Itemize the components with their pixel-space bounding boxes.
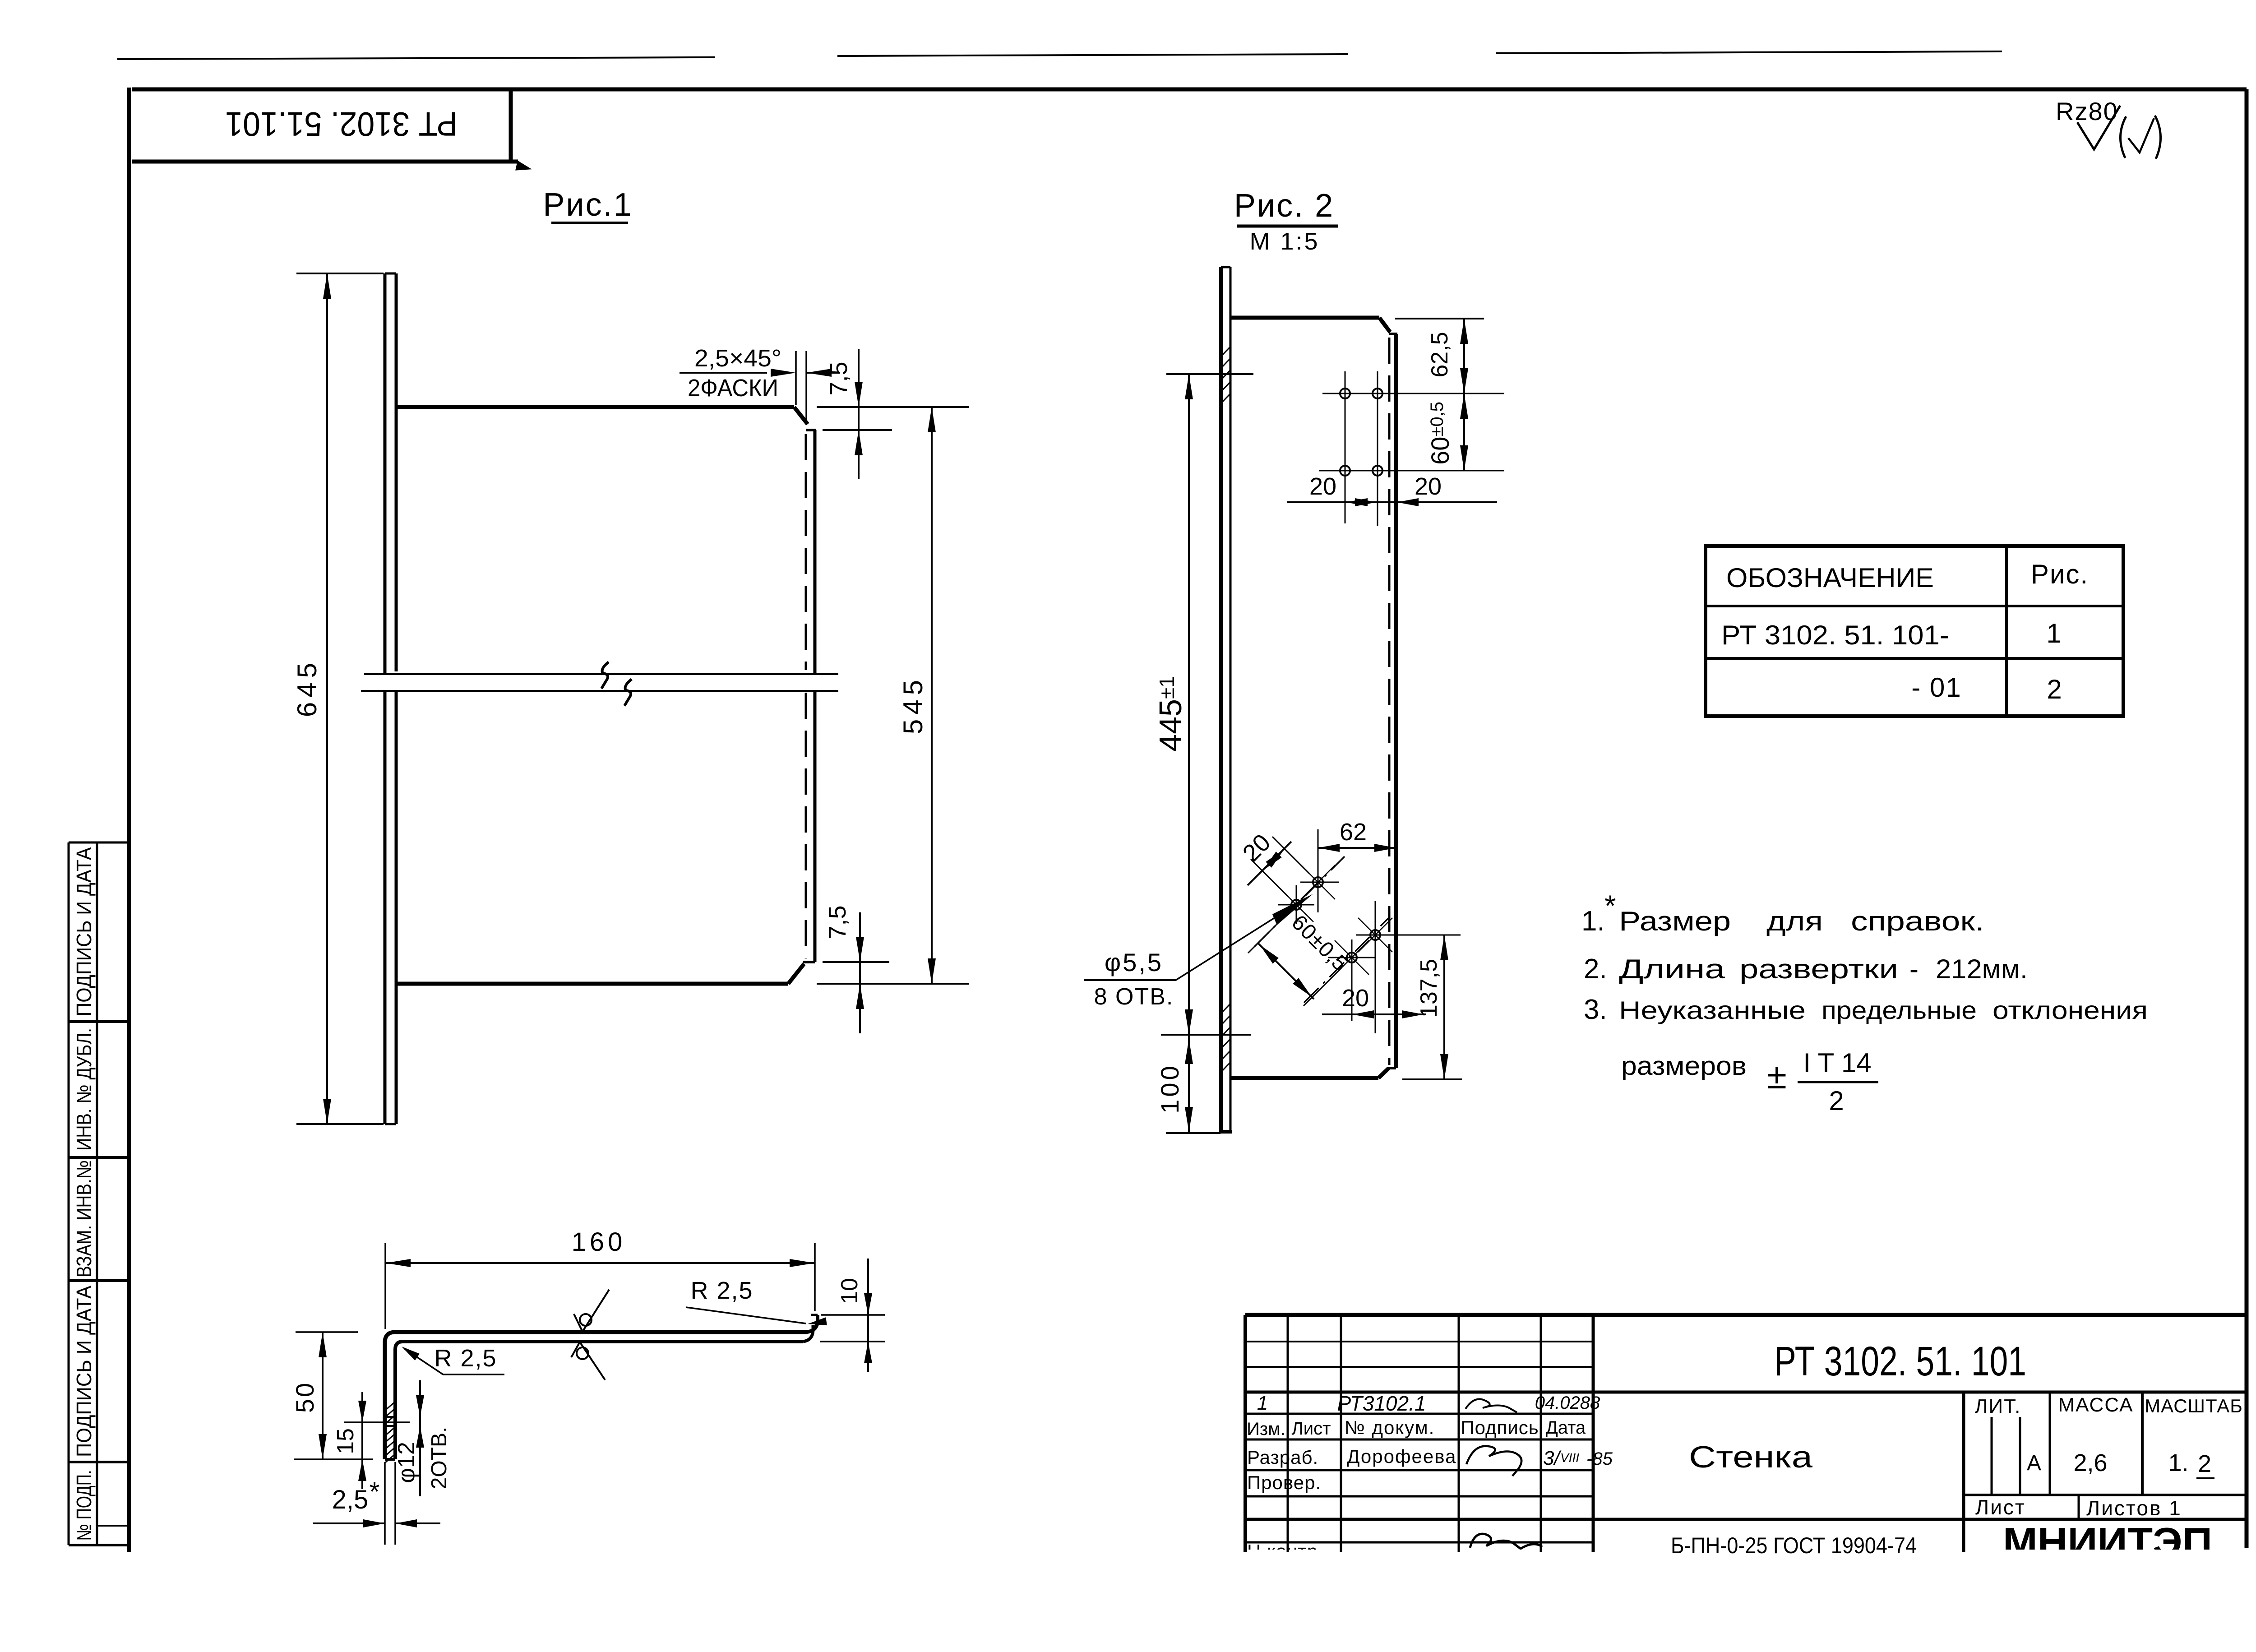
dim 445 text <box>1153 676 1188 752</box>
Fig.2 bar hatch upper band <box>1221 347 1230 403</box>
rev row signature <box>1465 1399 1517 1412</box>
svg-text:Рис.: Рис. <box>2031 559 2089 589</box>
roughness symbol below <box>571 1342 605 1380</box>
Fig.2 flange bar <box>1219 267 1232 1133</box>
razrab date <box>1543 1447 1613 1469</box>
diag dim 60 text <box>1287 911 1352 976</box>
dim 7,5 top extension line <box>823 429 892 431</box>
table column divider <box>2005 546 2008 716</box>
upper hole 1 <box>1340 389 1350 398</box>
lower dim 20 line with arrows <box>1322 1010 1426 1018</box>
title block thin rows <box>1245 1342 1593 1367</box>
dim 160 line with arrows <box>385 1259 815 1267</box>
drawing frame left border <box>127 88 131 1552</box>
Fig.3 lip tip cap <box>811 1314 818 1316</box>
Fig.3 sheet bottom surface with inner bend <box>395 1342 803 1459</box>
svg-text:Стенка: Стенка <box>1689 1440 1812 1474</box>
title block top border <box>1245 1313 2247 1317</box>
bottom partial row text <box>1247 1541 1324 1562</box>
svg-text:предельные: предельные <box>1821 996 1977 1024</box>
svg-text:50: 50 <box>291 1381 319 1413</box>
svg-text:φ5,5: φ5,5 <box>1105 948 1163 976</box>
paper top edge line <box>117 51 2002 59</box>
dim 7,5 top line with arrows <box>855 349 863 479</box>
svg-text:*: * <box>1604 889 1616 922</box>
svg-text:развертки: развертки <box>1739 954 1898 984</box>
lower hole D center lines <box>1328 939 1376 1021</box>
Fig.1 break zigzag upper <box>601 662 609 689</box>
svg-text:Листов 1: Листов 1 <box>2086 1496 2182 1520</box>
svg-text:62: 62 <box>1340 819 1367 846</box>
Fig.2 body top line <box>1230 316 1379 320</box>
svg-text:-85: -85 <box>1586 1449 1613 1469</box>
dim 100 bottom extension line <box>1166 1132 1220 1134</box>
drawing frame top border <box>132 88 2247 92</box>
radius R2,5 top leader <box>686 1307 827 1325</box>
dim 62,5 extension line <box>1395 318 1484 319</box>
svg-text:2,5: 2,5 <box>332 1485 369 1514</box>
svg-text:ПОДПИСЬ И ДАТА: ПОДПИСЬ И ДАТА <box>72 1286 96 1457</box>
table header row line <box>1706 605 2123 607</box>
title block row list/listov top <box>1964 1494 2247 1496</box>
title block right section columns <box>1964 1392 2142 1552</box>
svg-text:ВЗАМ. ИНВ.№: ВЗАМ. ИНВ.№ <box>72 1160 96 1277</box>
table second row line <box>1706 657 2123 660</box>
svg-text:справок.: справок. <box>1851 906 1984 936</box>
svg-text:7,5: 7,5 <box>824 905 851 939</box>
Fig.1 lip top step <box>806 429 816 431</box>
svg-text:*: * <box>369 1476 379 1507</box>
svg-text:размеров: размеров <box>1621 1051 1747 1081</box>
bottom partial signature <box>1470 1534 1542 1549</box>
Fig.2 top chamfer <box>1379 318 1390 332</box>
svg-text:Подпись: Подпись <box>1461 1417 1539 1438</box>
svg-text:Б-ПН-0-25 ГОСТ 19904-74: Б-ПН-0-25 ГОСТ 19904-74 <box>1671 1533 1917 1558</box>
dim 10 extension lines <box>820 1315 885 1342</box>
Fig.3 leg bottom cap <box>385 1458 395 1461</box>
lower hole A center lines <box>1300 829 1339 912</box>
svg-text:2,6: 2,6 <box>2073 1449 2107 1476</box>
svg-text:ПОДПИСЬ И ДАТА: ПОДПИСЬ И ДАТА <box>72 847 96 1016</box>
Fig.2 bend line (dashed) <box>1388 338 1391 1065</box>
dim 60+-0,5 line with arrows <box>1460 393 1468 471</box>
svg-text:2: 2 <box>2198 1450 2211 1477</box>
Fig.1 bottom chamfer <box>788 964 804 984</box>
svg-text:2ОТВ.: 2ОТВ. <box>427 1427 451 1490</box>
dim 62,5 line with arrows <box>1460 319 1468 393</box>
svg-text:100: 100 <box>1156 1063 1184 1113</box>
Fig.2 lip top step <box>1389 333 1397 335</box>
chamfer leader line with arrows <box>680 369 840 377</box>
Fig.1 bend line (dashed) <box>805 434 807 958</box>
parenthesis left <box>2120 116 2126 158</box>
upper hole 2 <box>1373 389 1382 398</box>
roughness symbol above <box>574 1290 609 1332</box>
svg-text:Рис.1: Рис.1 <box>543 187 633 223</box>
svg-text:137,5: 137,5 <box>1416 959 1442 1018</box>
dim 10 line with arrows <box>864 1259 872 1372</box>
margin strip verticals <box>69 842 97 1545</box>
org MNIITEP (cut off) <box>2003 1519 2212 1564</box>
dim 20 20 arrows <box>1346 498 1419 506</box>
Fig.1 body top line <box>396 405 794 409</box>
svg-text:Неуказанные: Неуказанные <box>1619 996 1806 1024</box>
dim 645 line with arrows <box>323 273 331 1124</box>
svg-text:62,5: 62,5 <box>1427 332 1453 377</box>
svg-text:Рис. 2: Рис. 2 <box>1234 188 1334 224</box>
drawing frame right border <box>2245 89 2249 1548</box>
svg-text:R 2,5: R 2,5 <box>690 1277 753 1304</box>
Fig.3 hole edge lines <box>385 1417 395 1426</box>
svg-text:ЛИТ.: ЛИТ. <box>1975 1395 2021 1417</box>
svg-text:1: 1 <box>2046 618 2061 648</box>
table border <box>1706 546 2123 716</box>
Rz80 check symbol <box>2077 106 2120 149</box>
svg-text:РТ 3102. 51. 101: РТ 3102. 51. 101 <box>1774 1338 2026 1384</box>
svg-text:10: 10 <box>837 1278 863 1304</box>
dim f12 line with arrows <box>416 1380 424 1496</box>
svg-text:8 ОТВ.: 8 ОТВ. <box>1094 984 1174 1010</box>
note 1 text <box>1619 906 1984 936</box>
lower hole B <box>1279 888 1313 922</box>
diagonal centre line through holes A-B <box>1254 856 1345 947</box>
hole callout underline <box>1084 979 1176 981</box>
svg-text:20: 20 <box>1342 985 1369 1012</box>
svg-text:№ докум.: № докум. <box>1345 1417 1435 1438</box>
title block left table columns <box>1288 1315 1593 1552</box>
svg-text:I T 14: I T 14 <box>1803 1048 1871 1078</box>
svg-text:3/: 3/ <box>1543 1447 1561 1469</box>
dim 15 line with arrows <box>358 1392 366 1489</box>
dim 7,5 bottom extension line <box>823 961 889 963</box>
svg-text:Дата: Дата <box>1546 1418 1586 1438</box>
Fig.1 body bottom line <box>396 982 788 986</box>
svg-text:МАССА: МАССА <box>2058 1394 2134 1416</box>
document number box (top-left) <box>132 88 530 170</box>
svg-text:МАСШТАБ: МАСШТАБ <box>2145 1395 2243 1416</box>
dim 445 line with arrows <box>1185 374 1193 1035</box>
Fig.2 body bottom line <box>1230 1076 1378 1080</box>
dim 160 extension lines <box>385 1243 815 1329</box>
Fig.1 flange bar <box>385 273 396 1124</box>
lower hole C <box>1358 918 1392 952</box>
svg-text:ИНВ. № ДУБЛ.: ИНВ. № ДУБЛ. <box>72 1028 96 1151</box>
Fig.3 leg hatching <box>385 1402 395 1463</box>
Fig.1 break lines <box>361 674 838 691</box>
upper hole 3 <box>1340 466 1350 476</box>
svg-text:φ12: φ12 <box>393 1442 420 1483</box>
title block main horizontal <box>1245 1391 2247 1394</box>
svg-text:20: 20 <box>1415 473 1442 500</box>
Fig.2 lip bottom step <box>1388 1067 1396 1069</box>
dim 60+-0,5 text <box>1426 402 1454 465</box>
dim 7,5 bottom line with arrows <box>856 912 864 1033</box>
Fig.1 top chamfer <box>794 407 808 424</box>
svg-text:1.: 1. <box>2168 1449 2188 1476</box>
svg-text:1.: 1. <box>1581 906 1605 937</box>
dim 20 20 line <box>1287 501 1497 503</box>
Fig.1 lip right edge <box>814 430 817 962</box>
svg-text:545: 545 <box>898 676 928 734</box>
svg-text:РТ 3102. 51. 101-: РТ 3102. 51. 101- <box>1721 620 1949 650</box>
dim 100 line with arrows <box>1185 1035 1193 1133</box>
dim 137,5 line with arrows <box>1440 935 1448 1079</box>
title block full row line <box>1245 1518 2247 1521</box>
Fig.3 right lip curl inner <box>803 1325 813 1342</box>
note 3 text <box>1619 996 2148 1024</box>
dim 62 line with arrows <box>1318 844 1398 852</box>
svg-text:645: 645 <box>292 658 322 717</box>
svg-text:VIII: VIII <box>1560 1451 1579 1465</box>
svg-text:Изм.: Изм. <box>1247 1419 1285 1439</box>
svg-text:отклонения: отклонения <box>1992 996 2148 1024</box>
Fig.3 right lip curl outer <box>807 1315 818 1332</box>
margin strip row borders <box>69 842 129 1545</box>
svg-text:160: 160 <box>572 1227 626 1257</box>
Fig.2 lip right edge <box>1394 334 1398 1068</box>
document number text (rotated 180) <box>225 105 458 143</box>
diag dim 60 line with arrows <box>1257 943 1314 999</box>
diagonal centre line through holes C-D <box>1304 918 1389 1003</box>
svg-text:20: 20 <box>1309 473 1336 500</box>
diag dim 20 line with arrows <box>1248 842 1291 885</box>
hole callout leader <box>1176 894 1313 980</box>
razrab signature <box>1466 1446 1521 1476</box>
svg-text:Провер.: Провер. <box>1247 1472 1321 1493</box>
svg-text:2,5×45°: 2,5×45° <box>694 345 781 372</box>
svg-text:- 01: - 01 <box>1911 672 1961 703</box>
upper hole 4 <box>1373 466 1382 476</box>
svg-text:Разраб.: Разраб. <box>1247 1447 1318 1468</box>
dim 645 extension lines <box>296 273 384 1124</box>
upper hole group center lines <box>1319 371 1504 526</box>
dim 545 line with arrows <box>928 407 936 984</box>
dim 445 top extension line <box>1166 373 1253 375</box>
lower hole D <box>1335 940 1369 975</box>
svg-text:-: - <box>1909 954 1919 984</box>
lower hole C center lines <box>1356 901 1461 1033</box>
svg-text:15: 15 <box>333 1428 359 1454</box>
dim 2,5 extension lines <box>385 1462 395 1545</box>
svg-text:№ ПОДП.: № ПОДП. <box>72 1470 96 1541</box>
Fig.2 title underline <box>1237 225 1338 228</box>
svg-text:ОБОЗНАЧЕНИЕ: ОБОЗНАЧЕНИЕ <box>1726 563 1934 593</box>
dim 545 extension lines <box>817 407 969 984</box>
svg-text:РТ3102.1: РТ3102.1 <box>1337 1392 1426 1415</box>
Fig.1 lip bottom step <box>803 961 815 963</box>
dim 2,5 arrows <box>313 1519 440 1527</box>
svg-text:04.0288: 04.0288 <box>1535 1393 1600 1413</box>
svg-text:Лист: Лист <box>1975 1495 2026 1519</box>
svg-text:R 2,5: R 2,5 <box>434 1345 497 1372</box>
radius R2,5 bottom leader <box>402 1347 504 1374</box>
Fig.1 title underline <box>551 222 628 224</box>
svg-text:РТ 3102. 51.101: РТ 3102. 51.101 <box>225 105 458 143</box>
dim 2,5 text with asterisk <box>332 1476 380 1514</box>
note 4 fraction bar <box>1798 1081 1878 1083</box>
svg-text:7,5: 7,5 <box>825 361 852 395</box>
dim 50 line with arrows <box>319 1332 327 1459</box>
Fig.3 sheet top surface with left bend <box>385 1332 807 1459</box>
shared extension line at flange base <box>1161 1034 1251 1036</box>
svg-text:2: 2 <box>2047 674 2062 704</box>
diag dim 60 extension stubs <box>1248 915 1342 1006</box>
svg-text:М 1:5: М 1:5 <box>1249 228 1319 255</box>
svg-text:±: ± <box>1767 1056 1787 1096</box>
diag dim 20 extension stubs <box>1251 837 1309 896</box>
svg-text:3.: 3. <box>1584 994 1607 1025</box>
svg-text:Дорофеева: Дорофеева <box>1347 1446 1456 1467</box>
svg-text:Rz80: Rz80 <box>2056 97 2118 125</box>
chamfer extension lines <box>796 351 806 421</box>
title block left table rows <box>1245 1414 1593 1542</box>
dim 137,5 extension line bottom <box>1402 1078 1462 1080</box>
lower hole A <box>1301 865 1335 899</box>
svg-text:Лист: Лист <box>1292 1419 1331 1439</box>
svg-text:Размер: Размер <box>1619 906 1731 936</box>
Fig.2 bottom chamfer <box>1378 1068 1389 1078</box>
svg-text:для: для <box>1766 906 1823 936</box>
parenthesis right <box>2155 116 2161 159</box>
diag dim 20 text <box>1238 829 1276 867</box>
Fig.2 bar hatch lower band <box>1221 1004 1230 1072</box>
note 2 text <box>1619 954 2028 984</box>
svg-text:212мм.: 212мм. <box>1936 954 2028 984</box>
svg-text:1: 1 <box>1257 1392 1268 1414</box>
lower hole B center lines <box>1278 885 1314 924</box>
dim 15 extension line <box>344 1421 410 1423</box>
Fig.1 break zigzag lower <box>624 679 632 706</box>
title block left border <box>1244 1315 1247 1552</box>
small check in parens <box>2128 118 2154 153</box>
svg-text:Длина: Длина <box>1619 954 1725 984</box>
svg-text:2ФАСКИ: 2ФАСКИ <box>688 375 778 402</box>
svg-text:А: А <box>2027 1451 2041 1475</box>
svg-text:2: 2 <box>1829 1086 1844 1116</box>
dim 50 extension lines <box>294 1332 373 1459</box>
svg-text:2.: 2. <box>1584 953 1607 985</box>
value masshtab 1:2 <box>2168 1449 2214 1478</box>
margin extra divider <box>97 1525 129 1527</box>
